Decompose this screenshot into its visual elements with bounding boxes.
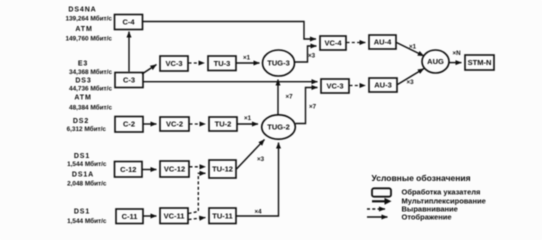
svg-text:VC-11: VC-11 [164, 211, 185, 220]
svg-text:×3: ×3 [257, 156, 265, 163]
svg-text:VC-3: VC-3 [326, 82, 343, 91]
svg-text:DS1: DS1 [74, 209, 90, 216]
svg-text:AUG: AUG [427, 57, 444, 66]
svg-text:VC-3: VC-3 [165, 59, 182, 68]
svg-text:C-4: C-4 [122, 18, 135, 27]
svg-text:DS3: DS3 [75, 78, 91, 85]
svg-text:139,264 Мбит/с: 139,264 Мбит/с [65, 15, 112, 23]
svg-text:ATM: ATM [74, 95, 91, 102]
svg-text:1,544 Мбит/с: 1,544 Мбит/с [67, 160, 107, 168]
svg-text:×3: ×3 [308, 53, 316, 60]
svg-text:2,048 Мбит/с: 2,048 Мбит/с [67, 179, 107, 187]
svg-text:×7: ×7 [285, 94, 293, 101]
svg-text:TU-12: TU-12 [212, 165, 233, 174]
svg-text:DS4NA: DS4NA [68, 7, 96, 14]
svg-text:DS1: DS1 [74, 153, 90, 160]
svg-text:DS1A: DS1A [72, 172, 94, 179]
svg-text:×4: ×4 [254, 209, 262, 216]
svg-text:AU-3: AU-3 [374, 81, 392, 90]
svg-text:Отображение: Отображение [402, 212, 452, 221]
svg-text:ATM: ATM [75, 26, 92, 33]
svg-text:×1: ×1 [409, 44, 417, 51]
svg-text:1,544 Мбит/с: 1,544 Мбит/с [67, 217, 107, 225]
svg-text:VC-4: VC-4 [324, 39, 342, 48]
svg-text:×3: ×3 [406, 79, 414, 86]
svg-text:TU-2: TU-2 [215, 120, 232, 129]
svg-text:×N: ×N [452, 50, 461, 57]
svg-text:C-3: C-3 [123, 76, 135, 85]
svg-text:Условные обозначения: Условные обозначения [372, 173, 471, 183]
svg-text:×1: ×1 [244, 115, 252, 122]
svg-text:TU-3: TU-3 [214, 59, 231, 68]
svg-text:TUG-3: TUG-3 [267, 59, 290, 68]
svg-text:C-12: C-12 [120, 165, 136, 174]
svg-text:×1: ×1 [243, 54, 251, 61]
svg-text:TUG-2: TUG-2 [267, 123, 290, 132]
svg-text:48,384 Мбит/с: 48,384 Мбит/с [69, 103, 112, 111]
svg-text:149,760 Мбит/с: 149,760 Мбит/с [65, 35, 112, 43]
svg-text:44,736 Мбит/с: 44,736 Мбит/с [69, 85, 112, 93]
svg-text:34,368 Мбит/с: 34,368 Мбит/с [69, 68, 112, 76]
svg-text:AU-4: AU-4 [374, 38, 392, 47]
svg-text:E3: E3 [78, 61, 88, 68]
svg-text:6,312 Мбит/с: 6,312 Мбит/с [67, 125, 107, 133]
svg-text:C-11: C-11 [122, 212, 138, 221]
svg-text:VC-2: VC-2 [166, 120, 183, 129]
svg-text:C-2: C-2 [123, 120, 135, 129]
svg-text:STM-N: STM-N [468, 58, 492, 67]
svg-text:DS2: DS2 [73, 118, 89, 125]
svg-text:TU-11: TU-11 [212, 211, 232, 220]
svg-text:×7: ×7 [309, 104, 317, 111]
svg-text:VC-12: VC-12 [164, 165, 185, 174]
